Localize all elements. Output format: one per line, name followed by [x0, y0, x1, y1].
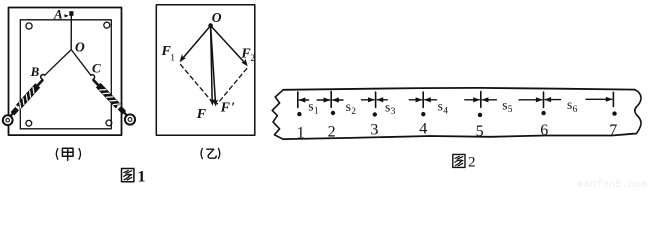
svg-text:manfen5.com: manfen5.com — [578, 179, 647, 189]
caption tu2 box glyph — [453, 154, 465, 167]
force F2 arrow — [211, 26, 246, 64]
tick 1 — [297, 92, 299, 107]
svg-text:s: s — [308, 99, 313, 114]
svg-text:4: 4 — [443, 106, 448, 116]
tape left torn edge — [272, 90, 283, 139]
svg-text:s: s — [502, 97, 507, 112]
hole bottom-left — [26, 120, 32, 126]
svg-text:2: 2 — [351, 107, 356, 117]
tick 7 — [612, 92, 614, 106]
s5 right arrow — [519, 97, 543, 102]
s6 left arrow — [544, 97, 560, 102]
resultant F' arrow — [211, 26, 216, 104]
hole top-left — [26, 23, 32, 29]
force F1 arrow — [182, 26, 211, 60]
left spring scale ring — [3, 115, 13, 125]
tape dot 7 — [612, 111, 616, 115]
s3 left arrow — [377, 97, 388, 102]
tick 4 — [422, 92, 424, 107]
svg-text:7: 7 — [609, 122, 617, 139]
force diagram frame — [156, 5, 255, 136]
right spring scale hook — [91, 75, 95, 79]
svg-text:1: 1 — [314, 106, 319, 116]
svg-text:s: s — [567, 97, 572, 112]
pin wedge at A — [64, 14, 68, 17]
svg-text:5: 5 — [508, 105, 513, 115]
board inner rect — [20, 20, 111, 129]
hole top-right — [104, 22, 110, 28]
left spring scale hook — [41, 74, 45, 79]
tick 5 — [480, 92, 482, 108]
tick 6 — [543, 92, 545, 107]
svg-text:4: 4 — [419, 121, 427, 138]
svg-text:3: 3 — [391, 107, 396, 117]
svg-text:2: 2 — [250, 54, 255, 64]
svg-text:C: C — [92, 61, 101, 76]
svg-text:5: 5 — [476, 123, 484, 140]
svg-text:2: 2 — [468, 155, 476, 171]
caption glyph jia — [62, 148, 73, 160]
paper tape outline — [283, 88, 635, 139]
tape dot 1 — [297, 112, 301, 116]
caption glyph yi — [207, 149, 216, 158]
s3 right arrow — [409, 97, 422, 102]
caption (jia) left paren — [56, 149, 58, 160]
s4 right arrow — [465, 97, 480, 102]
tick 2 — [330, 91, 332, 107]
svg-text:6: 6 — [573, 105, 578, 115]
tape dot 5 — [478, 113, 482, 117]
svg-text:6: 6 — [540, 122, 548, 139]
dashed line F1 tip to F' tip — [181, 65, 214, 104]
board outer rect — [9, 8, 122, 136]
svg-text:F ′: F ′ — [220, 101, 236, 116]
string O-B — [45, 50, 71, 76]
s6 right arrow — [586, 97, 613, 102]
svg-text:A: A — [53, 7, 63, 22]
caption tu1 box glyph — [122, 169, 134, 182]
tape right torn edge — [634, 90, 641, 134]
rubber band A-O — [70, 16, 72, 50]
right spring scale body — [91, 78, 130, 119]
pin square at A — [69, 11, 73, 16]
caption (jia) right paren — [79, 149, 81, 160]
resultant F arrow — [211, 26, 213, 103]
s1 left arrow — [299, 97, 309, 102]
s1 right arrow — [317, 97, 330, 102]
tape dot 3 — [373, 112, 377, 116]
svg-text:F: F — [196, 107, 207, 122]
svg-text:s: s — [438, 99, 443, 114]
tape dot 6 — [541, 111, 545, 115]
svg-text:3: 3 — [370, 121, 378, 138]
svg-text:1: 1 — [170, 54, 175, 64]
svg-text:2: 2 — [328, 124, 336, 141]
dashed line F2 tip to F' tip — [217, 69, 247, 104]
left spring scale body — [7, 78, 45, 120]
s2 left arrow — [332, 97, 343, 102]
svg-text:s: s — [385, 99, 390, 114]
tick 3 — [375, 92, 377, 107]
svg-text:1: 1 — [138, 169, 146, 186]
point O dot — [208, 23, 213, 28]
svg-text:O: O — [212, 10, 222, 25]
right spring scale ring — [125, 114, 135, 124]
tape dot 4 — [421, 112, 425, 116]
s4 left arrow — [424, 97, 437, 102]
hole bottom-right — [106, 120, 112, 126]
tape dot 2 — [331, 111, 335, 115]
caption (yi) left paren — [201, 148, 202, 158]
svg-text:s: s — [346, 99, 351, 114]
s2 right arrow — [362, 97, 375, 102]
svg-text:O: O — [75, 40, 85, 55]
svg-text:1: 1 — [297, 125, 305, 142]
svg-text:B: B — [30, 64, 40, 79]
string O-C — [71, 50, 91, 76]
s5 left arrow — [482, 97, 497, 102]
caption (yi) right paren — [218, 148, 219, 158]
